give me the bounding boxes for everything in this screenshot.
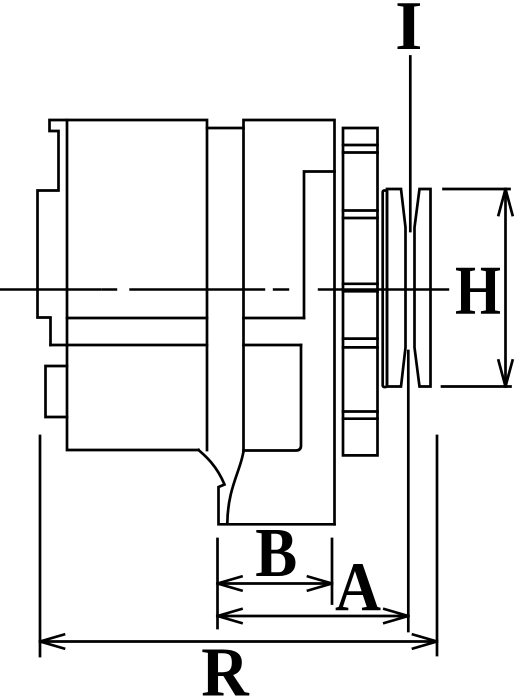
svg-text:H: H [455, 253, 501, 330]
svg-text:B: B [255, 515, 297, 592]
svg-text:R: R [201, 635, 250, 700]
svg-text:A: A [335, 550, 381, 627]
svg-text:I: I [395, 0, 422, 65]
